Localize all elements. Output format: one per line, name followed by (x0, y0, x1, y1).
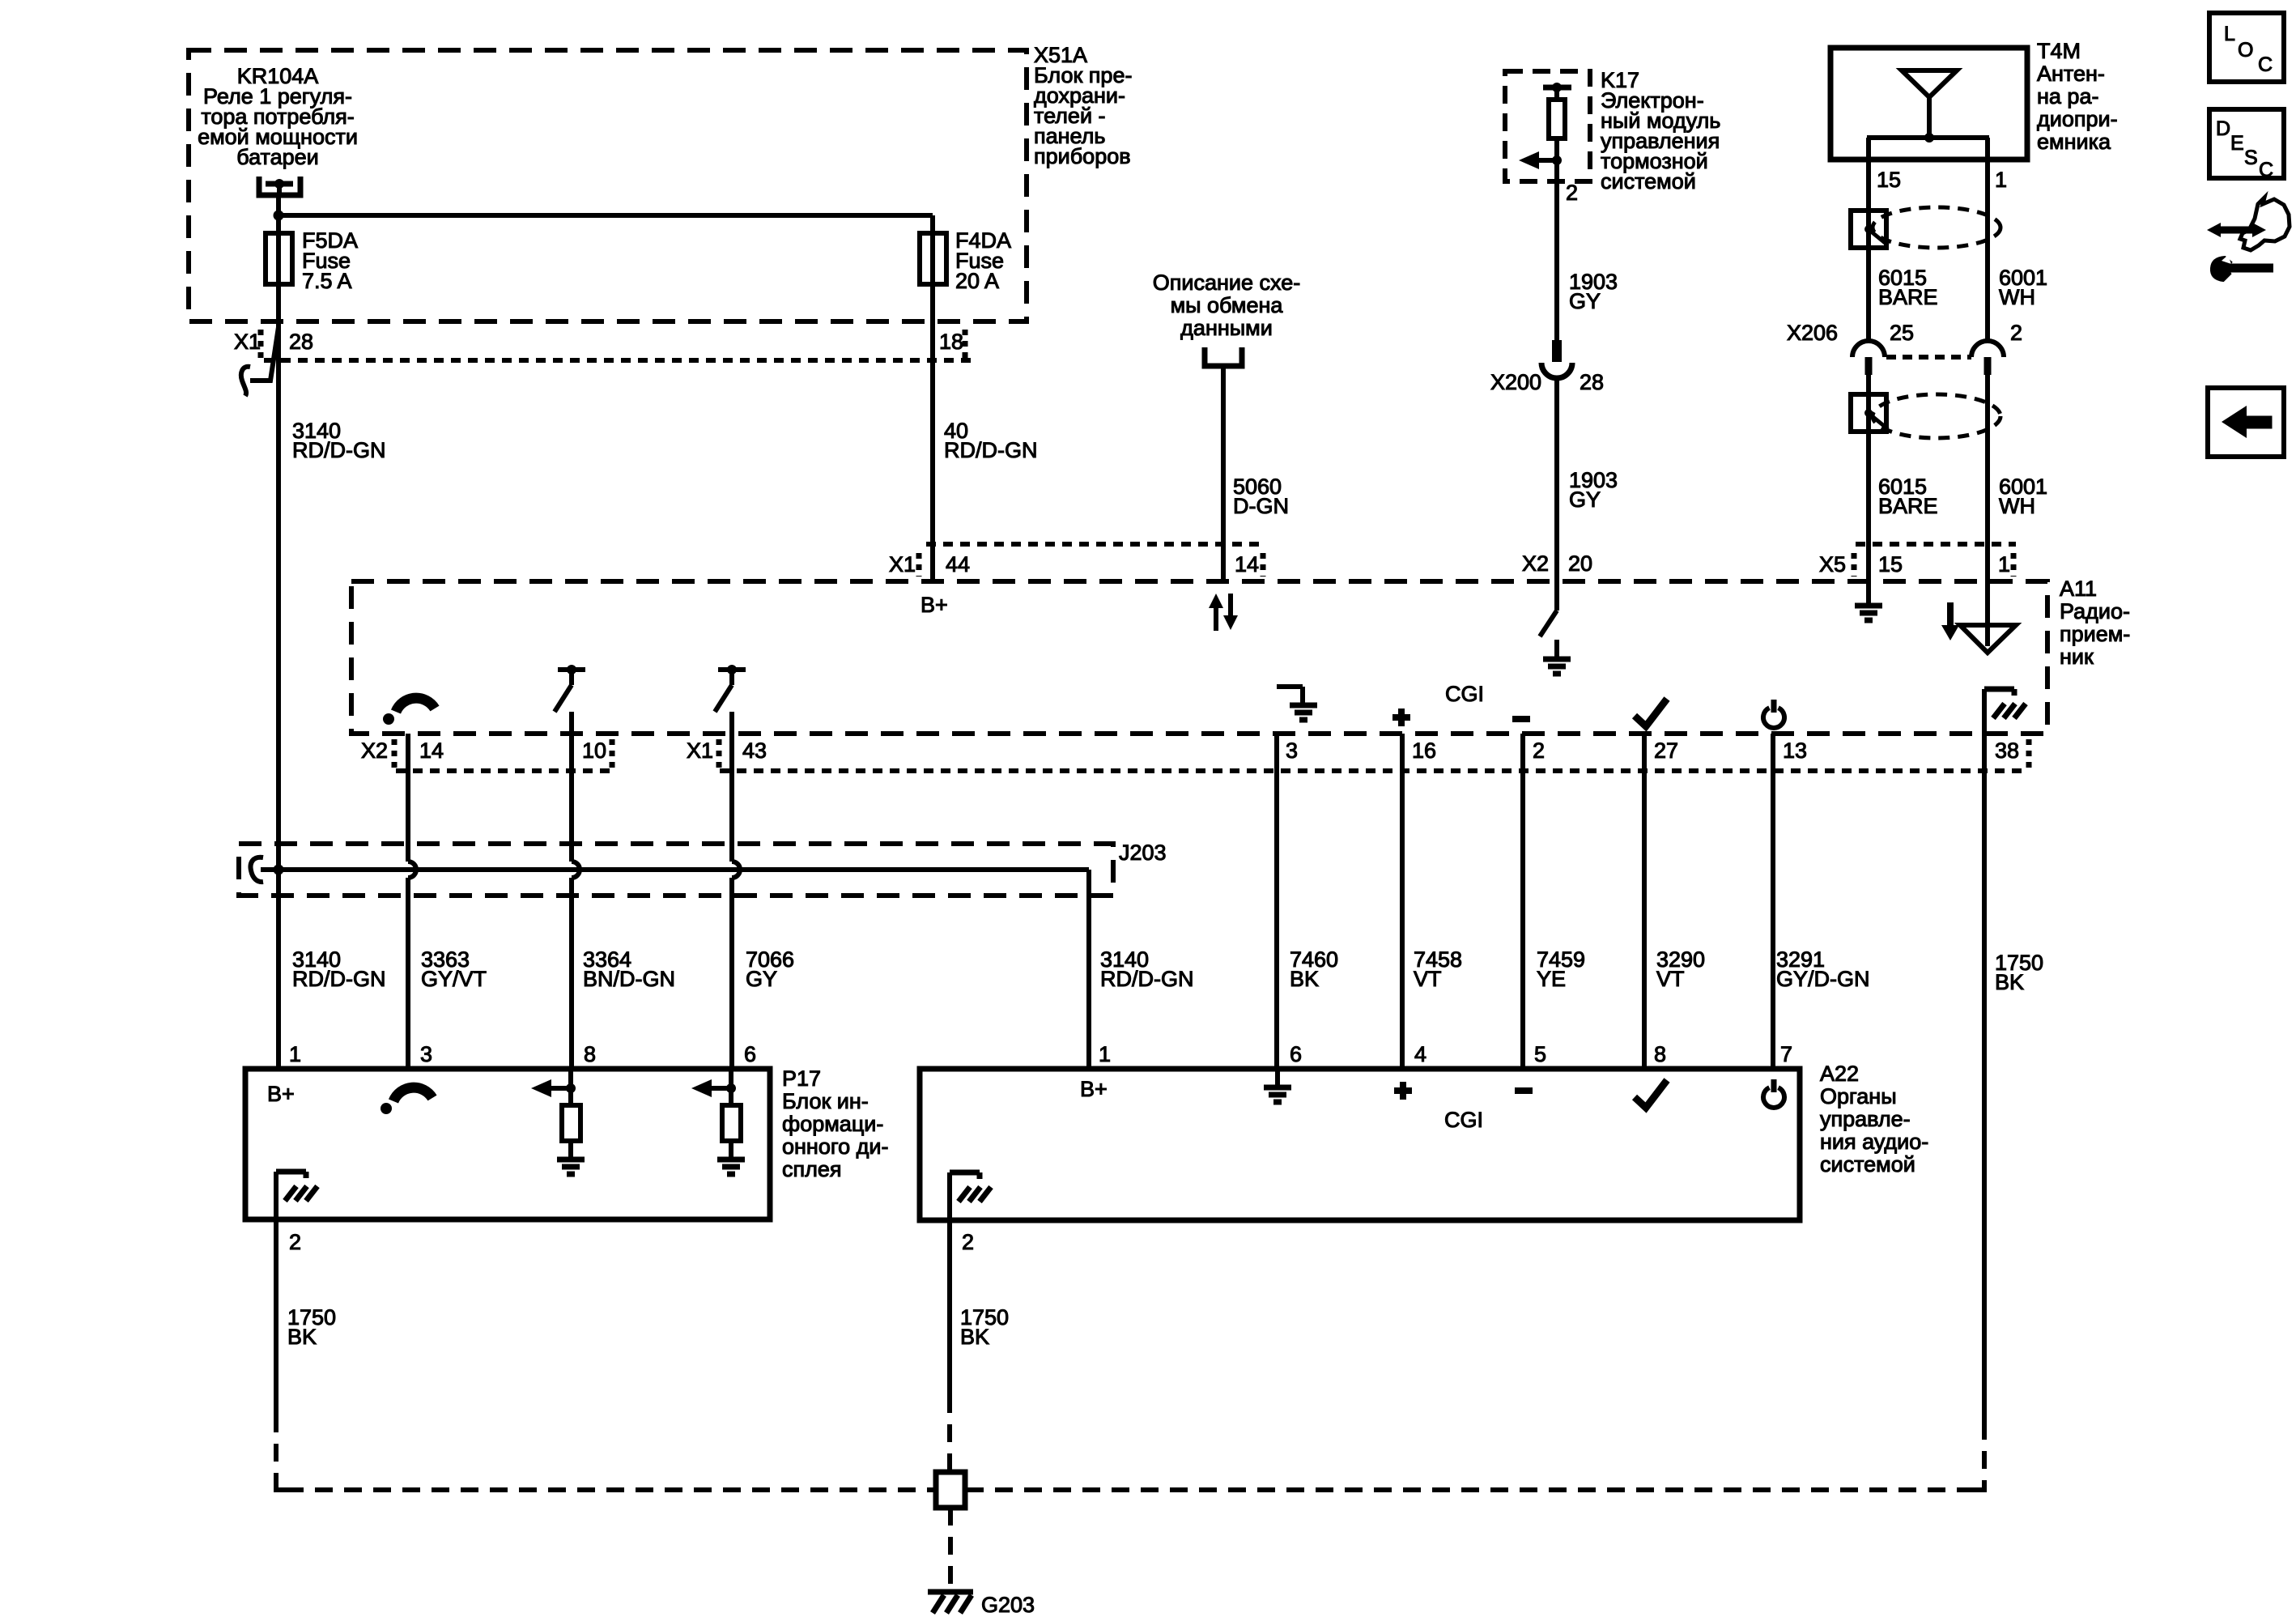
phone icon inside P17 (381, 1087, 432, 1114)
svg-text:2: 2 (962, 1230, 974, 1254)
svg-text:RD/D-GN: RD/D-GN (292, 967, 386, 991)
label CGI (radio) (1445, 682, 1484, 706)
svg-text:X1: X1 (234, 330, 261, 354)
svg-text:X5: X5 (1819, 552, 1846, 577)
connector mark X5/1 (2011, 553, 2017, 577)
svg-text:28: 28 (1580, 370, 1604, 394)
antenna input symbol inside radio (X5 pin 1) (1960, 581, 2016, 653)
label connector X200 (1490, 370, 1541, 394)
wire 7066 GY (radio 43 to P17 6) (732, 712, 740, 1069)
svg-text:2: 2 (1566, 181, 1578, 205)
svg-text:1: 1 (1099, 1042, 1111, 1066)
label wire 7066 GY (746, 947, 794, 991)
minus icon (radio pin 2) (1512, 716, 1530, 722)
label fuse F4DA 20 A (955, 228, 1011, 293)
svg-text:системой: системой (1820, 1152, 1915, 1177)
svg-text:5: 5 (1534, 1042, 1546, 1066)
label K17 (Электронный модуль управления тормозной системой) (1601, 68, 1720, 194)
phone icon inside radio (383, 698, 435, 725)
relay KR104A label (198, 64, 358, 169)
svg-text:X1: X1 (889, 552, 916, 577)
connector mark X1 (bottom) (716, 739, 722, 768)
pin 10 label (radio bottom) (582, 738, 606, 763)
svg-text:G203: G203 (981, 1593, 1035, 1617)
ground symbol inside radio (pin 20) (1543, 640, 1571, 674)
pin label X5 (radio top) (1819, 552, 1846, 577)
fuse block X51A dashed outline (189, 50, 1027, 321)
svg-text:приборов: приборов (1034, 144, 1131, 168)
in-line connector X206 terminal 2 (1971, 341, 2004, 375)
svg-text:Органы: Органы (1820, 1084, 1897, 1108)
svg-text:13: 13 (1783, 738, 1807, 763)
label Описание схемы обмена данными (1153, 270, 1300, 340)
label wire 3363 GY/VT (421, 947, 487, 991)
data in/out arrows icon (pin 14) (1209, 594, 1238, 631)
connector X2 dotted edge (radio bottom) (396, 768, 613, 773)
node B+ (radio pin 44) (921, 593, 948, 617)
svg-text:6: 6 (1290, 1042, 1302, 1066)
svg-text:онного ди-: онного ди- (782, 1134, 888, 1159)
pin label X1 (X51A) (234, 330, 261, 354)
pin 25 label (X206) (1890, 321, 1914, 345)
svg-text:7: 7 (1780, 1042, 1792, 1066)
wire 3290 VT (radio 27 to A22 8) (1642, 734, 1647, 1069)
svg-text:D-GN: D-GN (1233, 494, 1289, 518)
wire 5060 D-GN (to radio pin 14) (1221, 366, 1226, 581)
display unit P17 box (245, 1069, 770, 1219)
wire 1903 GY (X200 to radio pin 20) (1554, 377, 1559, 581)
svg-text:27: 27 (1654, 738, 1678, 763)
svg-text:RD/D-GN: RD/D-GN (1100, 967, 1194, 991)
wire fuse F5DA to connector X1 pin 28 (276, 283, 281, 327)
wire to ground G203 (dashed) (948, 1508, 953, 1589)
connector mark X1/28 (258, 330, 264, 359)
svg-text:X2: X2 (361, 738, 388, 763)
svg-text:28: 28 (289, 330, 313, 354)
svg-text:GY/VT: GY/VT (421, 967, 487, 991)
label wire 3291 GY/D-GN (1776, 947, 1870, 991)
wire 3291 GY/D-GN (radio 13 to A22 7) (1771, 734, 1775, 1069)
svg-text:прием-: прием- (2060, 622, 2130, 646)
svg-text:GY/D-GN: GY/D-GN (1776, 967, 1870, 991)
svg-text:CGI: CGI (1445, 682, 1484, 706)
wire 3363 GY/VT (radio 14 to P17 3) (408, 734, 416, 1069)
label wire 1750 BK (A22) (960, 1305, 1009, 1349)
wire 1750 BK (A22 pin 2, dashed) (947, 1395, 952, 1472)
wire 7458 VT (radio 16 to A22 4) (1400, 734, 1405, 1069)
svg-text:системой: системой (1601, 169, 1696, 194)
label wire 3140 RD/D-GN (upper) (292, 419, 386, 462)
svg-text:P17: P17 (782, 1066, 821, 1091)
pull-up resistor with arrow (P17 pin 8) (531, 1069, 585, 1174)
svg-text:WH: WH (1999, 494, 2035, 518)
splice bus wire inside J203 (261, 867, 1089, 872)
svg-text:Радио-: Радио- (2060, 599, 2130, 623)
switch icon inside radio (pin 10) (555, 665, 585, 712)
label wire 7459 YE (1537, 947, 1585, 991)
pin 8 label (A22) (1654, 1042, 1666, 1066)
svg-text:ник: ник (2060, 645, 2094, 669)
resistor inside K17 (1549, 100, 1565, 138)
label G203 (981, 1593, 1035, 1617)
connector X1 dotted edge (radio top, pins 44/14) (926, 542, 1261, 547)
svg-text:15: 15 (1878, 552, 1903, 577)
label wire 40 RD/D-GN (944, 419, 1038, 462)
svg-text:C: C (2259, 159, 2273, 181)
svg-text:25: 25 (1890, 321, 1914, 345)
wire 6001 WH (T4M pin 1 down) (1985, 138, 1990, 341)
relay KR104A contact symbol (259, 177, 300, 195)
label A22 (Органы управления аудиосистемой) (1820, 1062, 1928, 1177)
terminal clip symbol at X1 pin 28 (241, 327, 278, 396)
svg-text:X2: X2 (1522, 551, 1549, 576)
label T4M (Антенна радиоприемника) (2037, 39, 2118, 154)
splice S-box (1750 BK junction) (936, 1472, 965, 1508)
svg-text:14: 14 (1235, 552, 1259, 577)
pin 1 label (P17) (289, 1042, 301, 1066)
label fuse F5DA 7.5 A (302, 228, 358, 293)
shield dashed ellipse (upper) (1873, 207, 2000, 248)
wire 6015 BARE (T4M pin 15 down) (1866, 138, 1871, 341)
junction node (3140 at J203) (274, 865, 284, 875)
wire 1750 BK (P17 pin 2, solid) (274, 1219, 278, 1415)
label wire 5060 D-GN (1233, 474, 1289, 518)
pin 38 label (radio bottom) (1995, 738, 2019, 763)
svg-text:38: 38 (1995, 738, 2019, 763)
pin 6 label (P17) (744, 1042, 756, 1066)
svg-text:14: 14 (419, 738, 444, 763)
terminal clip at J203 bus end (251, 857, 263, 882)
svg-text:BK: BK (1290, 967, 1319, 991)
connector mark 38 (2026, 739, 2032, 768)
label wire 6015 BARE (lower) (1878, 474, 1938, 518)
connector mark X5 (1852, 553, 1857, 577)
svg-text:VT: VT (1656, 967, 1685, 991)
pin 15 label (radio X5) (1878, 552, 1903, 577)
svg-text:10: 10 (582, 738, 606, 763)
check icon (A22 pin 8) (1635, 1080, 1667, 1108)
K17 internal top bar and node (1543, 83, 1571, 100)
svg-text:WH: WH (1999, 285, 2035, 309)
svg-text:B+: B+ (921, 593, 948, 617)
svg-text:3: 3 (420, 1042, 432, 1066)
back arrow icon (2208, 388, 2284, 457)
svg-text:C: C (2258, 53, 2273, 76)
connector mark 18 (963, 330, 968, 359)
pin 43 label (radio bottom) (742, 738, 767, 763)
svg-text:RD/D-GN: RD/D-GN (292, 438, 386, 462)
pin 28 label (X200) (1580, 370, 1604, 394)
svg-text:GY: GY (1569, 487, 1601, 512)
pin 16 label (radio bottom) (1412, 738, 1436, 763)
wire K17 pin 2 to connector X200 (1903 GY) (1554, 138, 1559, 341)
svg-text:D: D (2216, 117, 2230, 140)
wire 40 RD/D-GN (fuse F4DA to radio B+ pin 44) (930, 283, 935, 581)
pin 2 label (P17 bottom) (289, 1230, 301, 1254)
wire 1750 BK (radio 38 down) (1982, 734, 1987, 1422)
svg-text:ния аудио-: ния аудио- (1820, 1130, 1928, 1154)
pin 2 label (X206) (2010, 321, 2022, 345)
svg-text:B+: B+ (1080, 1077, 1108, 1101)
pin 5 label (A22) (1534, 1042, 1546, 1066)
connector X1 dotted edge under X51A (264, 358, 976, 363)
K17 internal output arrow (1519, 151, 1562, 169)
in-line connector X200 (1541, 340, 1572, 378)
svg-text:диопри-: диопри- (2037, 107, 2118, 131)
svg-text:2: 2 (1533, 738, 1545, 763)
svg-text:данными: данными (1180, 316, 1273, 340)
svg-text:43: 43 (742, 738, 767, 763)
svg-text:BK: BK (287, 1325, 317, 1349)
label wire 3290 VT (1656, 947, 1705, 991)
pin 4 label (A22) (1414, 1042, 1426, 1066)
svg-text:44: 44 (946, 552, 970, 577)
svg-text:формаци-: формаци- (782, 1112, 883, 1136)
power icon (radio pin 13) (1763, 700, 1784, 728)
DESC navigation icon (2209, 109, 2284, 181)
svg-text:RD/D-GN: RD/D-GN (944, 438, 1038, 462)
wire 7460 BK (radio 3 to A22 6) (1274, 734, 1279, 1069)
node B+ (A22 pin 1) (1080, 1077, 1108, 1101)
wire 3140 RD/D-GN (J203 to A22 pin 1) (1086, 870, 1091, 1069)
svg-text:1: 1 (289, 1042, 301, 1066)
wire 1750 BK (dashed corner to splice) (276, 1480, 936, 1490)
svg-text:Т4М: Т4М (2037, 39, 2081, 63)
svg-text:Антен-: Антен- (2037, 62, 2105, 86)
pin 1 label (radio X5) (1998, 552, 2010, 577)
svg-text:E: E (2230, 132, 2244, 155)
pull-up resistor with arrow (P17 pin 6) (691, 1069, 745, 1174)
LOC navigation icon (2209, 13, 2284, 82)
wire 3364 BN/D-GN (radio 10 to P17 8) (572, 712, 580, 1069)
label A11 (Радиоприемник) (2060, 577, 2130, 669)
svg-text:16: 16 (1412, 738, 1436, 763)
svg-text:3: 3 (1286, 738, 1298, 763)
label wire 3364 BN/D-GN (583, 947, 675, 991)
wire relay feed to fuse F4DA (horizontal) (278, 213, 933, 218)
connector mark 14 (1261, 553, 1266, 577)
chassis ground icon (P17 pin 2) (276, 1172, 317, 1219)
label wire 1750 BK (P17) (287, 1305, 336, 1349)
signal-direction arrow (antenna input) (1941, 602, 1959, 640)
wire 6001 WH (X206 to radio X5-1) (1985, 375, 1990, 581)
svg-text:BK: BK (960, 1325, 989, 1349)
shield termination symbol (lower) (1851, 394, 1888, 432)
pin label X1 (radio bottom) (687, 738, 713, 763)
label wire 1903 GY (lower) (1569, 468, 1618, 512)
plus icon (A22 pin 4) (1394, 1082, 1412, 1100)
svg-text:BK: BK (1995, 970, 2024, 994)
node B+ (P17 pin 1) (267, 1082, 295, 1106)
label P17 (Блок информационного дисплея) (782, 1066, 888, 1181)
pin 20 label (radio) (1568, 551, 1592, 576)
svg-text:GY: GY (746, 967, 777, 991)
chassis ground icon (radio pin 38) (1984, 689, 2026, 735)
svg-text:6: 6 (744, 1042, 756, 1066)
antenna symbol inside T4M (1867, 70, 1989, 143)
svg-text:8: 8 (584, 1042, 596, 1066)
pin 28 label (X51A X1) (289, 330, 313, 354)
junction node (relay feed) (274, 211, 284, 221)
minus icon (A22 pin 5) (1515, 1087, 1533, 1094)
label wire 7458 VT (1414, 947, 1462, 991)
svg-text:15: 15 (1877, 168, 1901, 192)
svg-text:S: S (2244, 147, 2258, 169)
plus icon (radio pin 16) (1392, 709, 1410, 726)
pin label X2 (radio top) (1522, 551, 1549, 576)
label wire 6001 WH (lower) (1999, 474, 2047, 518)
svg-text:мы обмена: мы обмена (1171, 293, 1284, 317)
power icon (A22 pin 7) (1763, 1079, 1784, 1108)
check icon (radio pin 27) (1635, 699, 1667, 726)
svg-text:сплея: сплея (782, 1157, 842, 1181)
data-link connector symbol (1205, 347, 1242, 366)
svg-text:батареи: батареи (236, 145, 318, 169)
wire 1750 BK (P17 pin 2, dashed drop) (274, 1415, 278, 1480)
svg-text:BARE: BARE (1878, 494, 1938, 518)
label connector X206 (1787, 321, 1838, 345)
pin 1 label (T4M) (1995, 168, 2007, 192)
in-line connector X206 terminal 25 (1852, 341, 1885, 375)
connector X1 dotted edge (radio bottom) (720, 768, 2028, 773)
pin 27 label (radio bottom) (1654, 738, 1678, 763)
label wire 3140 RD/D-GN (to P17) (292, 947, 386, 991)
svg-text:20: 20 (1568, 551, 1592, 576)
pin 2 label (A22 bottom) (962, 1230, 974, 1254)
label wire 6015 BARE (upper) (1878, 266, 1938, 309)
pin label X1 (radio top) (889, 552, 916, 577)
pin 14 label (radio) (1235, 552, 1259, 577)
svg-text:1: 1 (1995, 168, 2007, 192)
pin 3 label (P17) (420, 1042, 432, 1066)
svg-text:8: 8 (1654, 1042, 1666, 1066)
svg-text:Блок ин-: Блок ин- (782, 1089, 869, 1113)
connector mark 10 (610, 739, 615, 768)
label wire 6001 WH (upper) (1999, 266, 2047, 309)
svg-text:A11: A11 (2060, 577, 2097, 601)
svg-text:GY: GY (1569, 289, 1601, 313)
svg-text:BN/D-GN: BN/D-GN (583, 967, 675, 991)
pin 13 label (radio bottom) (1783, 738, 1807, 763)
svg-text:J203: J203 (1119, 840, 1167, 865)
svg-text:18: 18 (939, 330, 963, 354)
label wire 1750 BK (right) (1995, 951, 2043, 994)
svg-text:20 A: 20 A (955, 269, 999, 293)
audio controls A22 box (920, 1069, 1800, 1220)
svg-text:2: 2 (2010, 321, 2022, 345)
wire from relay KR104A to fuse F5DA (276, 195, 281, 235)
pin 2 label (radio bottom) (1533, 738, 1545, 763)
ground symbol inside radio (X5 pin 15 shield) (1855, 581, 1882, 620)
ground G203 symbol (928, 1592, 973, 1613)
pin 1 label (A22) (1099, 1042, 1111, 1066)
switch icon inside radio (pin 43) (715, 665, 746, 712)
connector mark X1/44 (916, 553, 922, 577)
svg-text:1: 1 (1998, 552, 2010, 577)
fuse F4DA (920, 215, 946, 284)
svg-text:X206: X206 (1787, 321, 1838, 345)
fuse F5DA (266, 233, 292, 284)
radio A11 dashed box (351, 581, 2047, 734)
connector mark X2 (bottom) (392, 739, 398, 768)
pin 18 label (X51A X1) (939, 330, 963, 354)
ground bracket icon inside radio (pin 3) (1277, 687, 1317, 720)
svg-text:CGI: CGI (1444, 1108, 1483, 1132)
svg-text:X1: X1 (687, 738, 713, 763)
label wire 3140 RD/D-GN (to A22) (1100, 947, 1194, 991)
label X51A (Блок предохранителей - панель приборов) (1034, 43, 1132, 168)
pin 14 label (radio bottom) (419, 738, 444, 763)
wire 1750 BK (radio 38, dashed drop) (1982, 1422, 1987, 1480)
pin 44 label (radio) (946, 552, 970, 577)
svg-text:4: 4 (1414, 1042, 1426, 1066)
pin 6 label (A22) (1290, 1042, 1302, 1066)
svg-text:7.5 A: 7.5 A (302, 269, 352, 293)
pin 15 label (T4M) (1877, 168, 1901, 192)
switch symbol inside radio (pin 20 mute) (1540, 581, 1557, 636)
svg-text:управле-: управле- (1820, 1107, 1911, 1131)
wire 7459 YE (radio 2 to A22 5) (1520, 734, 1525, 1069)
shield dashed ellipse (lower) (1873, 394, 2000, 438)
svg-text:A22: A22 (1820, 1062, 1859, 1086)
module K17 dashed box (1505, 71, 1590, 181)
hand with wrench icon (2207, 198, 2290, 280)
svg-text:2: 2 (289, 1230, 301, 1254)
ground symbol inside A22 (pin 6) (1264, 1069, 1291, 1102)
label CGI (A22) (1444, 1108, 1483, 1132)
label wire 7460 BK (1290, 947, 1338, 991)
svg-text:B+: B+ (267, 1082, 295, 1106)
shield termination symbol (upper) (1851, 211, 1888, 248)
svg-text:YE: YE (1537, 967, 1566, 991)
wire 3140 RD/D-GN (X1-28 down to P17 pin 1) (276, 327, 281, 1069)
svg-text:X200: X200 (1490, 370, 1541, 394)
pin 3 label (radio bottom) (1286, 738, 1298, 763)
chassis ground icon (A22 pin 2) (950, 1172, 991, 1220)
splice pack J203 dashed box (239, 844, 1113, 896)
svg-text:BARE: BARE (1878, 285, 1938, 309)
svg-text:Описание схе-: Описание схе- (1153, 270, 1300, 295)
svg-text:L: L (2224, 23, 2235, 45)
connector X5 dotted edge (radio top) (1856, 542, 2016, 547)
wire 6015 BARE (X206 to radio X5-15) (1866, 375, 1871, 581)
pin 2 label (K17) (1566, 181, 1578, 205)
svg-text:O: O (2238, 39, 2253, 62)
pin 8 label (P17) (584, 1042, 596, 1066)
svg-text:емника: емника (2037, 130, 2111, 154)
label wire 1903 GY (upper) (1569, 270, 1618, 313)
antenna T4M box (1830, 48, 2027, 160)
svg-text:на ра-: на ра- (2037, 84, 2098, 109)
pin 7 label (A22) (1780, 1042, 1792, 1066)
pin label X2 (radio bottom) (361, 738, 388, 763)
wire 1750 BK (dashed corner right) (965, 1480, 1984, 1490)
wire 1750 BK (A22 pin 2, solid) (947, 1220, 952, 1395)
connector X206 dashed edge (1886, 355, 1971, 360)
svg-text:VT: VT (1414, 967, 1442, 991)
label J203 (1119, 840, 1167, 865)
